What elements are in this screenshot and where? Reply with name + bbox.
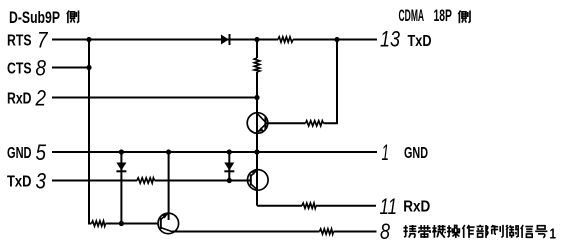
node bottom wire/D1 bbox=[119, 221, 124, 226]
svg-text:2: 2 bbox=[35, 86, 46, 111]
kanji sou bbox=[447, 225, 460, 238]
svg-text:13: 13 bbox=[380, 26, 401, 51]
node GND/D2 bbox=[227, 149, 232, 154]
svg-text:3: 3 bbox=[36, 169, 47, 194]
wire CTS8 bbox=[52, 67, 89, 69]
node GND/D1 bbox=[119, 149, 124, 154]
transistor Q3 bbox=[158, 213, 179, 234]
wire TxD3 left segment bbox=[52, 180, 137, 182]
diode D1 at x121 bbox=[116, 163, 126, 172]
wire RxD2 bbox=[52, 97, 257, 99]
svg-text:GND: GND bbox=[7, 145, 32, 162]
wire pin11 right segment bbox=[316, 205, 376, 207]
wire GND5 to pin1 bbox=[52, 151, 377, 153]
transistor Q1 bbox=[247, 113, 268, 134]
svg-text:1: 1 bbox=[550, 225, 557, 242]
wire RTS7 right segment to pin13 bbox=[293, 39, 377, 41]
node RxD/Q1 collector bbox=[254, 95, 259, 100]
resistor R4 horizontal on TxD line bbox=[137, 178, 155, 183]
kanji bu bbox=[476, 225, 488, 238]
resistor R5 horizontal on bottom wire bbox=[92, 221, 106, 226]
node pin13 branch bbox=[334, 37, 339, 42]
transistor Q2 bbox=[247, 170, 268, 191]
node GND/Q3 bbox=[166, 149, 171, 154]
wire Q1 base lead bbox=[265, 122, 306, 124]
kanji ki bbox=[432, 225, 445, 238]
resistor R7 horizontal on pin8 line bbox=[320, 229, 334, 234]
svg-text:D-Sub9P: D-Sub9P bbox=[9, 8, 60, 27]
svg-text:TxD: TxD bbox=[7, 174, 32, 191]
resistor R2 vertical below top junction bbox=[254, 58, 259, 72]
wire TxD3 right segment to Q2 base bbox=[155, 180, 251, 182]
resistor R1 horizontal on RTS line bbox=[278, 37, 293, 42]
node RTS/left column bbox=[86, 37, 91, 42]
svg-text:GND: GND bbox=[404, 145, 428, 162]
svg-text:11: 11 bbox=[380, 194, 398, 219]
svg-text:1: 1 bbox=[382, 140, 390, 165]
svg-text:RTS: RTS bbox=[7, 33, 32, 50]
svg-text:RxD: RxD bbox=[7, 91, 32, 108]
kanji keitaiki sousabu seigyo shingou (phone control signal) bbox=[404, 225, 548, 238]
wire main column top x257 bbox=[256, 40, 258, 59]
wire RTS7 left segment bbox=[52, 39, 278, 41]
wire Q3 collector x168 bbox=[168, 152, 170, 220]
wire left column vertical x89 bbox=[89, 40, 92, 224]
diode D3 on RTS line bbox=[221, 34, 230, 45]
kanji gawa (side) top-left bbox=[67, 11, 79, 24]
kanji gou bbox=[535, 226, 547, 238]
svg-text:18P: 18P bbox=[434, 6, 452, 25]
kanji saku bbox=[462, 225, 474, 238]
wire bottom to Q3 base bbox=[106, 223, 159, 225]
kanji sei bbox=[491, 225, 503, 238]
svg-text:TxD: TxD bbox=[408, 33, 432, 50]
svg-text:7: 7 bbox=[37, 28, 48, 53]
svg-text:5: 5 bbox=[36, 140, 47, 165]
svg-text:8: 8 bbox=[36, 56, 47, 81]
wire diode D1 column x121 bbox=[120, 152, 122, 224]
resistor R6 horizontal on pin11 line bbox=[302, 203, 316, 208]
svg-text:8: 8 bbox=[380, 219, 391, 244]
wire main column bottom corner to pin11 bbox=[256, 190, 258, 206]
wire diode D2 column x229 bbox=[228, 152, 230, 181]
node TxD/D2 bbox=[227, 178, 232, 183]
wire pin8 left segment bbox=[172, 231, 320, 233]
resistor R3 horizontal Q1 base bbox=[306, 121, 324, 126]
wire right column x337 from pin13 node down to base resistor bbox=[324, 40, 338, 124]
kanji shin bbox=[521, 225, 533, 238]
node CTS/left column bbox=[86, 65, 91, 70]
kanji kei bbox=[404, 225, 417, 238]
node after diode D3 bbox=[254, 37, 259, 42]
wire pin11 left segment bbox=[257, 205, 302, 207]
svg-text:RxD: RxD bbox=[403, 199, 430, 216]
node GND/main column bbox=[254, 149, 259, 154]
kanji gyo bbox=[506, 225, 518, 238]
kanji gawa (side) top-right bbox=[458, 11, 470, 24]
kanji tai bbox=[418, 225, 430, 238]
wire pin8 right segment bbox=[334, 231, 377, 233]
diode D2 at x229 bbox=[224, 163, 234, 172]
wire main column mid x257 bbox=[256, 72, 258, 190]
svg-text:CDMA: CDMA bbox=[399, 6, 425, 25]
svg-text:CTS: CTS bbox=[7, 61, 32, 78]
